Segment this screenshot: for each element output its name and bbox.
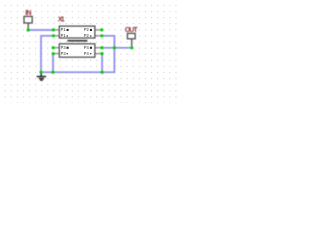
svg-text:P3: P3 bbox=[61, 45, 66, 51]
svg-text:P4: P4 bbox=[84, 51, 89, 57]
svg-text:X1: X1 bbox=[58, 16, 65, 23]
svg-text:P2: P2 bbox=[84, 27, 89, 33]
svg-text:P4: P4 bbox=[84, 45, 89, 51]
svg-text:P2: P2 bbox=[84, 33, 89, 39]
svg-text:IN: IN bbox=[25, 10, 31, 17]
svg-text:P1: P1 bbox=[61, 33, 66, 39]
svg-text:P1: P1 bbox=[61, 27, 66, 33]
svg-text:OUT: OUT bbox=[125, 27, 139, 34]
svg-text:P3: P3 bbox=[61, 51, 66, 57]
